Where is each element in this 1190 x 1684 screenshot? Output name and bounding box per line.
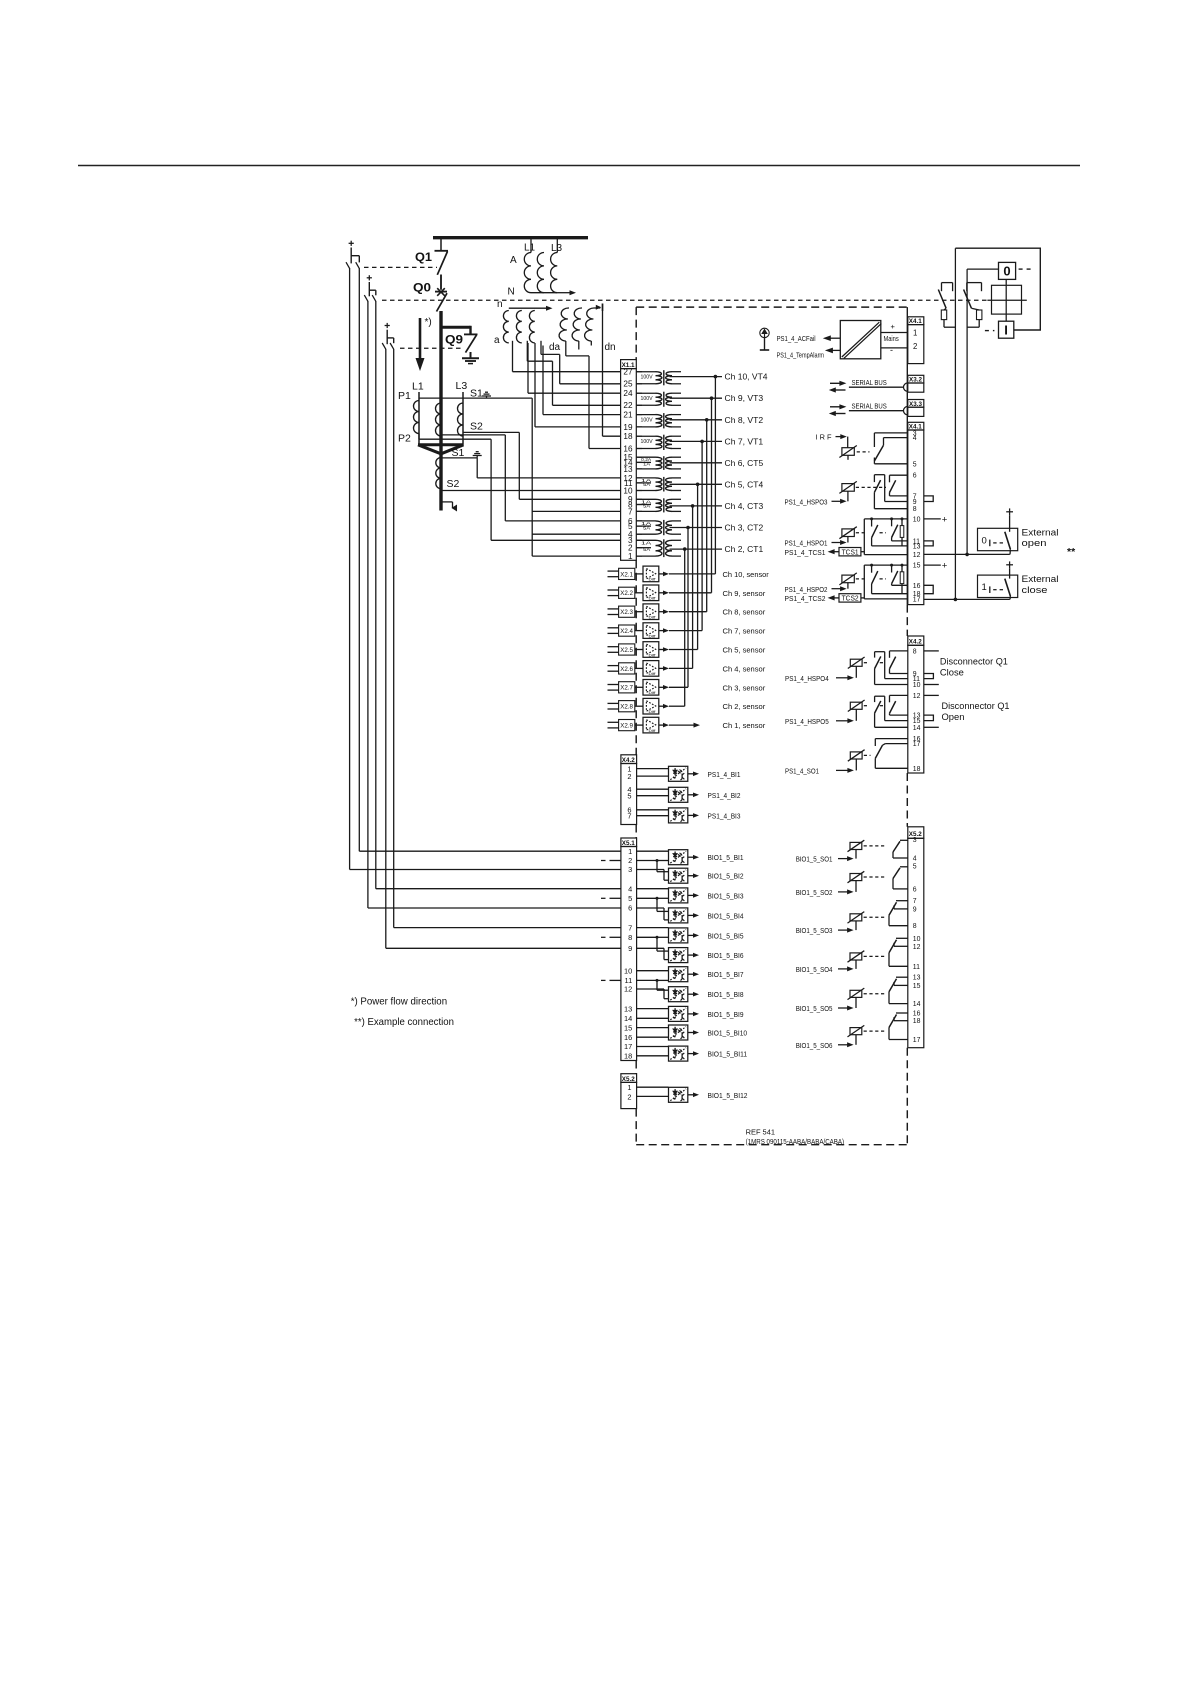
- svg-text:Mains: Mains: [884, 334, 899, 343]
- svg-text:Ch 10, sensor: Ch 10, sensor: [723, 570, 770, 579]
- svg-text:1: 1: [982, 582, 987, 593]
- svg-text:*) Power flow direction: *) Power flow direction: [351, 996, 448, 1008]
- svg-text:X2.4: X2.4: [620, 628, 633, 635]
- svg-text:BIO1_5_BI10: BIO1_5_BI10: [708, 1029, 748, 1038]
- svg-text:22: 22: [623, 401, 633, 410]
- svg-text:25: 25: [623, 380, 633, 389]
- svg-text:4: 4: [913, 435, 917, 442]
- svg-text:18: 18: [624, 1052, 632, 1061]
- svg-text:1A: 1A: [643, 462, 651, 467]
- svg-text:BIO1_5_BI4: BIO1_5_BI4: [708, 911, 744, 920]
- svg-text:4: 4: [913, 856, 917, 863]
- svg-text:S2: S2: [447, 478, 460, 490]
- svg-text:5A: 5A: [643, 525, 651, 530]
- svg-text:dn: dn: [605, 342, 616, 353]
- svg-text:6: 6: [913, 886, 917, 893]
- svg-text:X2.7: X2.7: [620, 685, 633, 692]
- svg-text:Diff: Diff: [649, 578, 656, 582]
- svg-text:PS1_4_SO1: PS1_4_SO1: [785, 767, 819, 776]
- svg-text:16: 16: [623, 444, 633, 453]
- svg-text:close: close: [1022, 585, 1048, 596]
- svg-text:5: 5: [628, 894, 632, 903]
- svg-text:I: I: [1004, 322, 1008, 337]
- svg-text:L1: L1: [524, 243, 536, 254]
- svg-text:12: 12: [624, 985, 632, 994]
- svg-text:17: 17: [913, 741, 921, 748]
- svg-text:5A: 5A: [643, 504, 651, 509]
- svg-text:BIO1_5_BI2: BIO1_5_BI2: [708, 872, 744, 881]
- svg-text:15: 15: [624, 1023, 632, 1032]
- svg-text:Q9: Q9: [445, 333, 463, 347]
- svg-text:Diff: Diff: [649, 653, 656, 657]
- svg-text:BIO1_5_BI8: BIO1_5_BI8: [708, 990, 744, 999]
- svg-text:5: 5: [627, 791, 631, 800]
- svg-text:+: +: [891, 322, 896, 331]
- svg-text:BIO1_5_BI11: BIO1_5_BI11: [708, 1050, 748, 1059]
- svg-text:S1: S1: [452, 447, 465, 459]
- svg-text:External: External: [1022, 527, 1059, 538]
- svg-text:BIO1_5_BI1: BIO1_5_BI1: [708, 853, 744, 862]
- svg-text:S2: S2: [470, 421, 483, 433]
- svg-text:18: 18: [623, 432, 633, 441]
- svg-text:10: 10: [913, 936, 921, 943]
- svg-text:2: 2: [628, 856, 632, 865]
- svg-text:-: -: [890, 345, 893, 355]
- svg-text:8: 8: [913, 506, 917, 513]
- svg-text:24: 24: [623, 389, 633, 398]
- svg-text:Ch 5, CT4: Ch 5, CT4: [725, 480, 764, 489]
- svg-text:PS1_4_ACFail: PS1_4_ACFail: [777, 334, 816, 343]
- svg-text:4: 4: [628, 884, 632, 893]
- svg-text:BIO1_5_BI6: BIO1_5_BI6: [708, 951, 744, 960]
- svg-text:Q0: Q0: [413, 281, 431, 295]
- svg-text:PS1_4_HSPO5: PS1_4_HSPO5: [785, 717, 829, 726]
- svg-text:5: 5: [913, 461, 917, 468]
- svg-text:Ch 7, sensor: Ch 7, sensor: [723, 627, 766, 636]
- svg-text:Diff: Diff: [649, 672, 656, 676]
- svg-text:18: 18: [913, 1018, 921, 1025]
- svg-text:Ch 9, VT3: Ch 9, VT3: [725, 394, 764, 403]
- svg-text:BIO1_5_SO5: BIO1_5_SO5: [796, 1004, 833, 1013]
- svg-text:S1: S1: [470, 388, 483, 400]
- svg-text:P2: P2: [398, 433, 411, 445]
- svg-text:Ch 8, VT2: Ch 8, VT2: [725, 416, 764, 425]
- svg-text:L1: L1: [412, 381, 424, 393]
- svg-text:2: 2: [627, 1092, 631, 1101]
- svg-text:15: 15: [913, 563, 921, 570]
- svg-text:BIO1_5_BI3: BIO1_5_BI3: [708, 891, 744, 900]
- svg-text:1: 1: [627, 1083, 631, 1092]
- svg-text:TCS2: TCS2: [842, 594, 859, 603]
- svg-text:PS1_4_BI1: PS1_4_BI1: [708, 770, 741, 779]
- svg-text:Ch 4, sensor: Ch 4, sensor: [723, 664, 766, 673]
- svg-text:16: 16: [913, 583, 921, 590]
- svg-text:18: 18: [913, 766, 921, 773]
- svg-text:14: 14: [913, 1001, 921, 1008]
- svg-text:1: 1: [913, 329, 917, 338]
- svg-text:N: N: [508, 287, 515, 298]
- svg-text:BIO1_5_BI9: BIO1_5_BI9: [708, 1010, 744, 1019]
- svg-text:10: 10: [913, 682, 921, 689]
- svg-text:X2.8: X2.8: [620, 704, 633, 711]
- svg-text:7: 7: [627, 811, 631, 820]
- svg-text:L3: L3: [551, 243, 563, 254]
- svg-text:7: 7: [913, 898, 917, 905]
- svg-text:PS1_4_TempAlarm: PS1_4_TempAlarm: [777, 351, 824, 360]
- svg-text:Disconnector Q1: Disconnector Q1: [940, 656, 1008, 667]
- svg-text:Diff: Diff: [649, 729, 656, 733]
- svg-text:19: 19: [623, 423, 633, 432]
- svg-text:+: +: [942, 514, 948, 525]
- svg-text:14: 14: [624, 1014, 632, 1023]
- svg-text:Ch 6, CT5: Ch 6, CT5: [725, 459, 764, 468]
- svg-text:External: External: [1022, 574, 1059, 585]
- svg-text:13: 13: [624, 1004, 632, 1013]
- svg-text:1A: 1A: [641, 540, 653, 545]
- svg-text:0: 0: [982, 535, 987, 546]
- svg-text:9: 9: [628, 944, 632, 953]
- svg-text:7: 7: [628, 507, 633, 516]
- svg-text:BIO1_5_SO2: BIO1_5_SO2: [796, 888, 833, 897]
- svg-text:13: 13: [913, 543, 921, 550]
- svg-text:0: 0: [1003, 264, 1010, 279]
- svg-text:PS1_4_HSPO3: PS1_4_HSPO3: [785, 497, 828, 506]
- svg-text:P1: P1: [398, 390, 411, 402]
- svg-text:8: 8: [913, 923, 917, 930]
- svg-text:14: 14: [913, 725, 921, 732]
- svg-text:8: 8: [628, 933, 632, 942]
- svg-text:13: 13: [623, 465, 633, 474]
- svg-text:3: 3: [628, 865, 632, 874]
- svg-text:27: 27: [623, 368, 633, 377]
- svg-text:6: 6: [628, 904, 632, 913]
- svg-text:L3: L3: [456, 380, 468, 392]
- svg-text:a: a: [494, 335, 500, 346]
- svg-text:SERIAL BUS: SERIAL BUS: [852, 378, 887, 387]
- svg-text:TCS1: TCS1: [842, 547, 859, 556]
- svg-text:1: 1: [628, 847, 632, 856]
- svg-text:Disconnector Q1: Disconnector Q1: [942, 701, 1010, 712]
- svg-text:PS1_4_TCS2: PS1_4_TCS2: [785, 594, 826, 603]
- svg-text:SERIAL BUS: SERIAL BUS: [852, 402, 887, 411]
- svg-text:X2.1: X2.1: [620, 571, 633, 578]
- svg-text:2: 2: [627, 772, 631, 781]
- svg-text:100V: 100V: [641, 374, 654, 380]
- svg-text:Ch 7, VT1: Ch 7, VT1: [725, 437, 764, 446]
- svg-text:da: da: [549, 342, 561, 353]
- svg-text:11: 11: [913, 964, 920, 971]
- svg-text:17: 17: [913, 1037, 921, 1044]
- svg-text:5: 5: [913, 864, 917, 871]
- svg-text:**: **: [1067, 546, 1076, 558]
- svg-text:100V: 100V: [641, 396, 654, 402]
- svg-text:X4.2: X4.2: [909, 639, 922, 646]
- svg-text:Ch 10, VT4: Ch 10, VT4: [725, 373, 769, 382]
- svg-text:BIO1_5_BI7: BIO1_5_BI7: [708, 970, 744, 979]
- svg-text:16: 16: [624, 1033, 632, 1042]
- svg-text:12: 12: [913, 552, 921, 559]
- svg-text:16: 16: [913, 1011, 921, 1018]
- svg-text:17: 17: [624, 1042, 632, 1051]
- svg-text:Open: Open: [942, 712, 965, 723]
- svg-text:100V: 100V: [641, 439, 654, 445]
- svg-text:A: A: [510, 255, 517, 266]
- svg-text:PS1_4_HSPO2: PS1_4_HSPO2: [785, 585, 828, 594]
- svg-text:X4.2: X4.2: [622, 757, 635, 764]
- svg-text:Ch 9, sensor: Ch 9, sensor: [723, 589, 766, 598]
- svg-text:2: 2: [913, 342, 917, 351]
- svg-text:12: 12: [913, 944, 921, 951]
- svg-text:BIO1_5_SO6: BIO1_5_SO6: [796, 1041, 833, 1050]
- svg-text:12: 12: [913, 693, 921, 700]
- svg-text:X2.5: X2.5: [620, 647, 633, 654]
- svg-text:9: 9: [913, 906, 917, 913]
- svg-text:5A: 5A: [643, 482, 651, 487]
- svg-text:13: 13: [913, 975, 921, 982]
- svg-text:REF 541: REF 541: [746, 1128, 775, 1137]
- svg-text:X2.2: X2.2: [620, 590, 633, 597]
- svg-text:21: 21: [623, 411, 633, 420]
- svg-text:Ch 4, CT3: Ch 4, CT3: [725, 502, 764, 511]
- svg-text:10: 10: [913, 516, 921, 523]
- svg-text:X2.9: X2.9: [620, 723, 633, 730]
- svg-text:BIO1_5_SO3: BIO1_5_SO3: [796, 926, 833, 935]
- svg-text:15: 15: [913, 983, 921, 990]
- svg-text:Diff: Diff: [649, 691, 656, 695]
- svg-text:PS1_4_HSPO1: PS1_4_HSPO1: [785, 539, 828, 548]
- svg-text:Diff: Diff: [649, 597, 656, 601]
- svg-text:Diff: Diff: [649, 710, 656, 714]
- svg-text:PS1_4_BI2: PS1_4_BI2: [708, 791, 741, 800]
- svg-text:BIO1_5_BI12: BIO1_5_BI12: [708, 1091, 748, 1100]
- svg-text:Close: Close: [940, 668, 964, 679]
- svg-text:Diff: Diff: [649, 634, 656, 638]
- svg-text:Ch 3, sensor: Ch 3, sensor: [723, 683, 766, 692]
- svg-text:*): *): [425, 317, 432, 328]
- svg-text:BIO1_5_SO1: BIO1_5_SO1: [796, 855, 833, 864]
- svg-text:+: +: [942, 561, 948, 572]
- svg-text:Ch 1, sensor: Ch 1, sensor: [723, 721, 766, 730]
- svg-text:10: 10: [624, 966, 632, 975]
- svg-text:X2.6: X2.6: [620, 666, 633, 673]
- svg-text:n: n: [497, 299, 503, 310]
- svg-text:Diff: Diff: [649, 616, 656, 620]
- svg-text:open: open: [1022, 538, 1047, 549]
- svg-text:Ch 2, sensor: Ch 2, sensor: [723, 702, 766, 711]
- svg-text:Ch 2, CT1: Ch 2, CT1: [725, 545, 764, 554]
- svg-text:BIO1_5_SO4: BIO1_5_SO4: [796, 965, 833, 974]
- svg-text:6: 6: [913, 473, 917, 480]
- svg-text:**) Example connection: **) Example connection: [354, 1016, 454, 1028]
- svg-text:8: 8: [913, 648, 917, 655]
- svg-text:BIO1_5_BI5: BIO1_5_BI5: [708, 931, 744, 940]
- svg-text:X2.3: X2.3: [620, 609, 633, 616]
- svg-text:PS1_4_HSPO4: PS1_4_HSPO4: [785, 674, 829, 683]
- svg-text:Ch 5, sensor: Ch 5, sensor: [723, 646, 766, 655]
- svg-text:1: 1: [628, 552, 633, 561]
- svg-text:I R F: I R F: [816, 433, 832, 442]
- svg-text:Ch 3, CT2: Ch 3, CT2: [725, 524, 764, 533]
- svg-text:17: 17: [913, 596, 921, 603]
- svg-text:100V: 100V: [641, 418, 654, 424]
- svg-text:7: 7: [628, 923, 632, 932]
- svg-text:PS1_4_TCS1: PS1_4_TCS1: [785, 548, 826, 557]
- svg-text:3: 3: [913, 837, 917, 844]
- svg-text:Ch 8, sensor: Ch 8, sensor: [723, 608, 766, 617]
- svg-text:10: 10: [623, 486, 633, 495]
- svg-text:Q1: Q1: [415, 250, 432, 264]
- svg-text:9: 9: [913, 499, 917, 506]
- svg-text:(1MRS 090115-AABA/BABA/CABA): (1MRS 090115-AABA/BABA/CABA): [746, 1137, 845, 1146]
- svg-text:PS1_4_BI3: PS1_4_BI3: [708, 811, 741, 820]
- svg-text:5A: 5A: [643, 547, 651, 552]
